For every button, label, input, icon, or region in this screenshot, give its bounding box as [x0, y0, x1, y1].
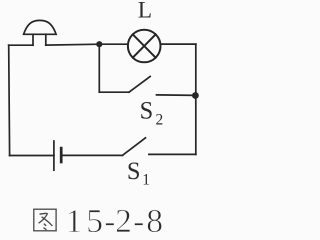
battery BT1 long plate	[53, 141, 55, 170]
svg-text:15-2-8: 15-2-8	[66, 203, 164, 238]
wire node A to lamp	[99, 43, 128, 45]
node B junction dot	[192, 92, 199, 99]
wire S2 left contact	[99, 91, 129, 93]
wire bell to node A	[46, 43, 100, 46]
svg-text:2: 2	[156, 111, 164, 128]
caption character 图	[34, 209, 56, 231]
wire S2 right contact to node B	[157, 94, 196, 97]
svg-text:S: S	[140, 98, 154, 125]
bell B1	[24, 20, 57, 45]
node A junction dot	[96, 41, 102, 47]
switch S1 blade	[123, 138, 146, 156]
wire S1 right contact to bottom-right corner	[149, 153, 196, 155]
wire battery to S1	[61, 154, 122, 156]
wire node A down	[98, 44, 100, 92]
wire right vertical	[195, 44, 197, 154]
wire lamp to top-right corner	[161, 43, 196, 45]
svg-text:1: 1	[142, 171, 150, 188]
switch S2 blade	[129, 76, 150, 92]
wire top-left to bell	[9, 44, 33, 46]
svg-text:L: L	[138, 0, 152, 24]
wire left vertical	[8, 45, 11, 155]
svg-text:S: S	[127, 158, 141, 185]
battery BT1 short plate	[60, 148, 63, 162]
lamp L	[128, 30, 161, 63]
wire bottom-left	[10, 155, 54, 157]
